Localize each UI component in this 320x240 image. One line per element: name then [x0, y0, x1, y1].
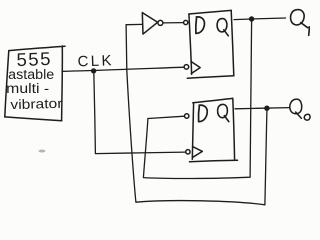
- wire inverter output to FF1 D input: [163, 22, 183, 24]
- node FF2 D input terminal: [185, 114, 189, 118]
- label D (FF2): [198, 105, 207, 122]
- 555 astable multivibrator U1: [5, 46, 65, 121]
- label D (FF1): [196, 17, 205, 34]
- svg-text:CLK: CLK: [77, 52, 114, 70]
- wire CLK from 555 to FF1 clock input: [62, 67, 184, 71]
- D flip-flop U3 (FF1): [187, 10, 234, 78]
- wire Q0 feedback: Q0 node down, along bottom, up to inverter input: [126, 24, 267, 204]
- label Q0: [290, 99, 310, 120]
- D flip-flop U4 (FF2): [190, 98, 238, 161]
- clock input terminal FF2: [186, 150, 190, 154]
- node Q0 junction: [264, 106, 269, 111]
- wire CLK junction down to FF2 clock input: [94, 71, 186, 153]
- clock input terminal FF1: [184, 65, 189, 70]
- label Q1: [291, 10, 310, 36]
- label Q (FF1): [217, 19, 228, 36]
- inverter U2: [142, 13, 163, 34]
- wire FF2 Q output to Q0: [235, 108, 290, 109]
- svg-text:vibrator: vibrator: [10, 96, 63, 112]
- clock edge triangle FF2: [193, 147, 203, 158]
- clock edge triangle FF1: [191, 61, 200, 73]
- wire Q1 junction down and left to FF2 D input: [143, 22, 251, 179]
- node CLK junction: [91, 68, 96, 73]
- svg-text:multi -: multi -: [6, 81, 49, 96]
- wire FF1 Q output to Q1: [234, 18, 286, 20]
- node Q1 junction: [249, 16, 254, 21]
- node FF1 D input terminal: [184, 20, 188, 24]
- label Q (FF2): [218, 104, 229, 121]
